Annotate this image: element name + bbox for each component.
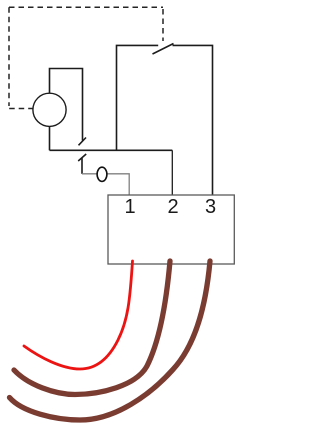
svg-text:3: 3 <box>205 196 216 218</box>
svg-text:1: 1 <box>124 196 135 218</box>
svg-text:2: 2 <box>167 196 178 218</box>
